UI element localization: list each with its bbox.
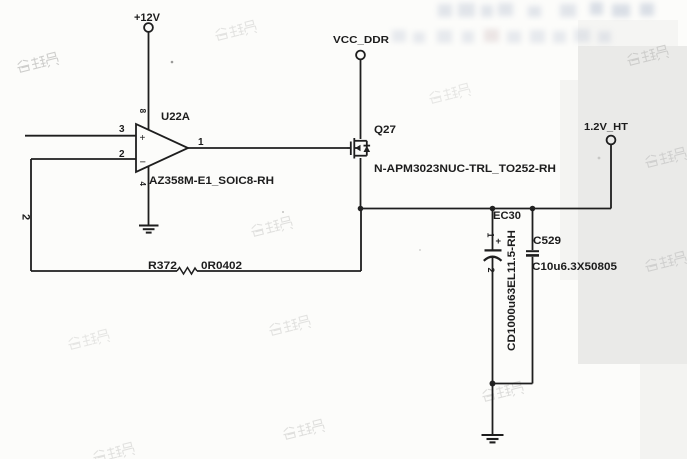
svg-text:Q27: Q27 [374, 124, 396, 136]
wire U22A pin 4 to ground [148, 167, 150, 226]
svg-text:+: + [496, 236, 502, 247]
wire output rail [361, 208, 612, 210]
capacitor C529 [532, 209, 534, 251]
svg-text:1: 1 [198, 137, 204, 148]
blurred blue annotation text top-right row 1 [438, 2, 654, 17]
svg-text:−: − [140, 157, 146, 169]
node junction Q27 source / output rail [358, 206, 364, 212]
wire feedback: right of R [197, 270, 361, 272]
capacitor EC30 electrolytic [492, 209, 494, 250]
ground below U22A [139, 226, 159, 233]
wire feedback: up to output node [360, 209, 362, 271]
wire VCC_DDR down to Q27 drain [360, 60, 362, 140]
svg-text:+: + [140, 133, 146, 144]
scan specks [171, 61, 174, 64]
resistor R372 zigzag [177, 268, 197, 275]
wire U22A pin 3 input [25, 135, 136, 137]
svg-text:C10u6.3X50805: C10u6.3X50805 [532, 261, 617, 273]
svg-text:EC30: EC30 [493, 210, 521, 222]
svg-text:CD1000u63EL11.5-RH: CD1000u63EL11.5-RH [506, 230, 518, 351]
wire U22A pin 1 output to Q27 gate [188, 147, 347, 149]
power terminal VCC_DDR [356, 51, 365, 60]
wire Q27 source down to node [360, 158, 362, 209]
svg-text:1.2V_HT: 1.2V_HT [584, 122, 628, 133]
svg-text:3: 3 [119, 124, 125, 135]
svg-text:8: 8 [138, 109, 147, 114]
wire feedback: bottom horizontal left of R [31, 270, 177, 272]
wire down to ground [492, 384, 494, 435]
right scan shading band [578, 46, 687, 364]
node junction C529 top [530, 206, 536, 212]
blurred blue annotation text top-right row 2 [392, 29, 611, 43]
svg-text:+12V: +12V [134, 12, 161, 24]
node junction bottom [490, 381, 496, 387]
svg-text:C529: C529 [533, 235, 561, 247]
svg-text:1: 1 [486, 233, 496, 238]
node junction EC30 top [490, 206, 496, 212]
svg-text:N-APM3023NUC-TRL_TO252-RH: N-APM3023NUC-TRL_TO252-RH [374, 163, 556, 175]
terminal net 1.2V_HT [607, 136, 616, 145]
svg-text:2: 2 [119, 149, 125, 160]
svg-text:R372: R372 [148, 260, 177, 272]
svg-text:4: 4 [138, 182, 147, 187]
wire +12V to U22A pin 8 [148, 32, 150, 130]
svg-text:U22A: U22A [161, 111, 190, 123]
wire U22A pin 2 input [31, 158, 136, 160]
svg-text:0R0402: 0R0402 [201, 260, 242, 272]
wire 1.2V_HT down to rail [610, 145, 612, 209]
power terminal +12V [144, 23, 153, 32]
svg-text:2: 2 [20, 214, 32, 220]
wire feedback: pin2 down [30, 159, 32, 271]
transistor Q27 MOSFET symbol [347, 138, 370, 159]
svg-text:AZ358M-E1_SOIC8-RH: AZ358M-E1_SOIC8-RH [149, 175, 274, 187]
wire bottom join [493, 383, 533, 385]
svg-text:VCC_DDR: VCC_DDR [333, 35, 390, 46]
ground bottom [482, 435, 504, 442]
svg-text:2: 2 [486, 268, 496, 273]
op-amp U22A triangle [136, 124, 188, 172]
watermark 管理员 instances [16, 52, 59, 75]
